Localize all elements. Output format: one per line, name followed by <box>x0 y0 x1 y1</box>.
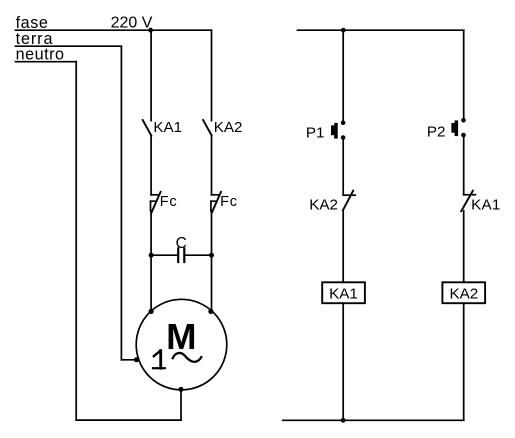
svg-text:KA1: KA1 <box>329 286 358 303</box>
wire control-left upper <box>342 30 344 120</box>
wire branch-A mid <box>150 136 152 195</box>
coil KA1 box <box>322 282 365 303</box>
wire branch-A upper <box>150 30 152 120</box>
pushbutton P2 <box>451 118 465 137</box>
wire control-left bottom <box>342 303 344 420</box>
coil KA2 box <box>442 282 485 303</box>
wire control-right lower <box>463 211 465 282</box>
wire terra to motor <box>121 359 138 361</box>
svg-text:M: M <box>166 316 196 357</box>
wire terra vertical <box>120 46 122 360</box>
wire control bottom bus <box>283 419 464 421</box>
wire neutro vertical <box>75 62 77 420</box>
wire branch-A lower <box>150 211 152 312</box>
contact KA1 (NO) blade <box>143 120 152 136</box>
svg-text:KA2: KA2 <box>449 286 478 303</box>
wire neutro bottom <box>76 419 181 421</box>
node control bottom junction dot <box>341 418 346 423</box>
node control top junction dot <box>341 28 346 33</box>
capacitor C wires and plates <box>151 248 211 262</box>
svg-text:220 V: 220 V <box>111 14 153 31</box>
svg-text:P2: P2 <box>427 123 446 140</box>
motor phase count 1 <box>153 351 165 369</box>
wire motor bottom vertical <box>180 389 182 420</box>
svg-text:C: C <box>176 235 187 252</box>
wire branch-B upper <box>211 30 213 120</box>
svg-text:fase: fase <box>16 14 49 32</box>
node motor top-right dot <box>208 309 213 314</box>
contact KA1 (NC) control-right <box>461 191 475 212</box>
wire branch-B mid <box>211 136 213 195</box>
svg-text:KA2: KA2 <box>214 119 243 136</box>
node motor bottom dot <box>179 387 184 392</box>
wire branch-B lower <box>211 211 213 312</box>
pushbutton P1 <box>331 121 345 140</box>
motor M1 circle <box>136 299 227 390</box>
node terra-motor dot <box>134 357 139 362</box>
limit switch Fc (branch A) <box>151 192 161 213</box>
wire control top bus <box>298 29 464 31</box>
wire control-left lower <box>342 210 344 282</box>
wire neutro horizontal <box>16 61 77 63</box>
node capacitor left dot <box>149 253 154 258</box>
wire control-right mid <box>463 137 465 194</box>
wire terra horizontal <box>16 45 122 47</box>
contact KA2 (NO) blade <box>203 120 212 136</box>
node capacitor right dot <box>209 253 214 258</box>
wire control-left mid <box>342 140 344 195</box>
svg-text:KA1: KA1 <box>153 119 182 136</box>
svg-text:Fc: Fc <box>160 194 178 210</box>
wire control-right bottom <box>463 303 465 420</box>
wire control-right upper <box>463 30 465 118</box>
limit switch Fc (branch B) <box>211 192 221 213</box>
svg-text:neutro: neutro <box>16 46 65 64</box>
wire fase top bus <box>16 29 212 31</box>
node junction dot fase/branch-A <box>148 28 153 33</box>
svg-text:KA2: KA2 <box>309 196 338 213</box>
svg-text:KA1: KA1 <box>471 197 500 214</box>
motor tilde <box>172 353 202 362</box>
node motor top-left dot <box>149 309 154 314</box>
contact KA2 (NC) control-left <box>343 191 355 211</box>
svg-text:P1: P1 <box>306 125 325 142</box>
svg-text:Fc: Fc <box>220 194 238 210</box>
